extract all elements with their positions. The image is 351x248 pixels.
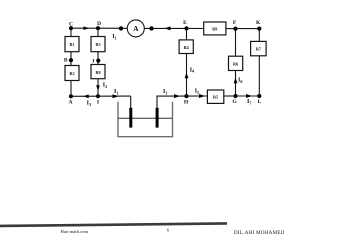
current arrow battery to H <box>174 94 180 98</box>
resistor R7 <box>251 41 267 55</box>
svg-text:J: J <box>92 59 95 65</box>
wire top rail D to ammeter <box>98 27 127 29</box>
svg-text:A: A <box>133 24 139 33</box>
svg-text:K: K <box>256 20 261 26</box>
current arrow I to A <box>83 94 89 98</box>
wire top rail C-D <box>71 27 98 29</box>
svg-text:DIL.AHI MOHAMED: DIL.AHI MOHAMED <box>234 231 285 236</box>
node K <box>256 20 261 31</box>
svg-text:R8: R8 <box>95 70 100 75</box>
footer rule <box>0 222 227 227</box>
battery electrode right <box>156 108 159 128</box>
wire R6 down to G with current arrow I6 <box>234 71 238 97</box>
label I3 <box>87 101 91 107</box>
label I1 at battery left <box>114 89 118 95</box>
wire R1 to B <box>70 52 72 66</box>
svg-text:Hari math.com: Hari math.com <box>61 229 89 234</box>
resistor R6 <box>229 56 243 70</box>
node J <box>92 59 101 65</box>
svg-text:I1: I1 <box>112 34 116 40</box>
svg-text:C: C <box>69 22 73 28</box>
label I1 at battery right <box>163 89 167 95</box>
svg-text:B: B <box>64 58 68 64</box>
svg-text:I4: I4 <box>190 67 195 73</box>
wire R4 up to E <box>186 28 188 40</box>
node H <box>184 94 189 105</box>
svg-text:6: 6 <box>167 228 170 233</box>
node A <box>68 94 73 105</box>
svg-text:I2: I2 <box>103 83 107 89</box>
current arrow E to ammeter <box>165 26 171 30</box>
resistor R3 <box>91 37 105 52</box>
svg-text:E: E <box>183 20 187 26</box>
svg-text:R3: R3 <box>95 42 100 47</box>
wire R3 to J <box>97 52 99 65</box>
svg-text:R5: R5 <box>213 94 218 99</box>
resistor R2 <box>65 66 79 81</box>
wire I to battery left lead <box>98 95 131 97</box>
svg-text:I7: I7 <box>247 99 251 105</box>
svg-text:I3: I3 <box>87 101 91 107</box>
svg-text:D: D <box>97 21 101 27</box>
wire battery right lead up <box>156 96 158 108</box>
wire R7 down to L <box>258 56 260 96</box>
svg-text:R7: R7 <box>256 47 261 52</box>
svg-text:G: G <box>232 99 237 105</box>
svg-text:F: F <box>233 20 237 26</box>
node junction dot right of ammeter <box>149 26 153 30</box>
electrolytic cell container <box>118 102 173 137</box>
current arrow H to R5 <box>199 94 205 98</box>
label I4 <box>190 67 195 73</box>
svg-text:I1: I1 <box>114 89 118 95</box>
wire battery to H <box>156 95 186 97</box>
svg-text:R6: R6 <box>233 61 238 66</box>
svg-text:I6: I6 <box>238 78 242 84</box>
wire K down to R7 <box>258 29 260 42</box>
node G <box>232 94 237 105</box>
wire H to R5 <box>187 95 208 97</box>
resistor R9 <box>204 22 226 35</box>
current arrow G to L <box>246 94 252 98</box>
wire G to L <box>236 95 260 97</box>
resistor R8 <box>91 65 105 79</box>
current arrow toward battery <box>113 94 119 98</box>
footer right text <box>234 231 285 236</box>
wire D down to R3 <box>97 28 99 36</box>
resistor R1 <box>65 37 79 52</box>
ammeter A <box>127 20 144 37</box>
label I2 <box>103 83 107 89</box>
svg-text:R2: R2 <box>69 71 74 76</box>
node E <box>183 20 188 31</box>
label I1 <box>112 34 116 40</box>
label I5 <box>195 89 199 95</box>
node C <box>69 22 73 31</box>
svg-text:A: A <box>68 100 72 106</box>
svg-text:R9: R9 <box>212 27 217 32</box>
node L <box>257 94 261 105</box>
resistor R5 <box>207 90 223 103</box>
wire R2 to A <box>70 81 72 97</box>
wire R8 to I with current arrow I2 <box>96 79 100 97</box>
svg-text:I5: I5 <box>195 89 199 95</box>
wire F down to R6 <box>235 29 237 57</box>
resistor R4 <box>179 40 193 54</box>
svg-text:H: H <box>184 99 189 105</box>
svg-text:I: I <box>97 99 99 105</box>
battery electrode left <box>129 108 132 128</box>
node B <box>64 58 73 64</box>
wire bottom rail I to A <box>71 95 98 97</box>
current arrow C to D <box>84 26 90 30</box>
svg-text:I1: I1 <box>163 89 167 95</box>
wire E to R9 <box>187 27 204 29</box>
svg-text:R4: R4 <box>184 45 190 50</box>
wire R5 to G <box>224 95 236 97</box>
node D <box>96 21 101 30</box>
node F <box>233 20 238 31</box>
label I7 <box>247 99 251 105</box>
node I <box>96 94 100 105</box>
wire C down to R1 <box>70 28 72 36</box>
svg-text:R1: R1 <box>69 42 74 47</box>
svg-text:L: L <box>258 99 262 105</box>
wire H up to R4 with current arrow I4 <box>185 54 189 97</box>
footer left text <box>61 229 89 234</box>
footer page number <box>167 228 170 233</box>
wire R9 to F <box>226 28 236 30</box>
wire battery left lead down <box>130 96 132 108</box>
wire ammeter to E <box>144 27 186 29</box>
node junction dot left of ammeter <box>119 26 123 30</box>
label I6 <box>238 78 242 84</box>
wire F to K <box>236 28 260 30</box>
